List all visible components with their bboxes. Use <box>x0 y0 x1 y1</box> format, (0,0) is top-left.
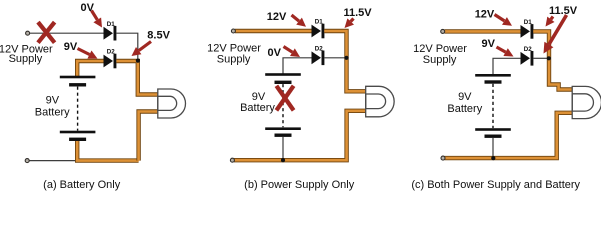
diode D2 (a) <box>104 54 117 69</box>
wire: battery + to D2 anode (active, orange) <box>77 61 103 77</box>
arrow: 11.5V probe to node after D1 (c) <box>546 17 555 27</box>
svg-text:11.5V: 11.5V <box>549 5 578 17</box>
svg-text:(a) Battery Only: (a) Battery Only <box>43 179 121 191</box>
svg-text:D2: D2 <box>107 49 115 56</box>
wire: horn - return (active, orange) <box>139 112 158 161</box>
terminal: supply + terminal (a) <box>26 31 30 35</box>
wire: bottom rail to horn - (active, orange) <box>234 111 366 160</box>
arrow: 11.5V probe to node (b) <box>345 18 355 28</box>
horn LS3 (c) <box>572 86 601 118</box>
svg-text:9V: 9V <box>64 41 78 53</box>
junction: battery-/rail node (b) <box>281 158 285 162</box>
svg-text:D1: D1 <box>107 21 115 28</box>
battery B2 9V (b) <box>265 73 301 137</box>
svg-text:(c) Both Power Supply and Batt: (c) Both Power Supply and Battery <box>411 179 580 191</box>
terminal: supply - terminal (c) <box>441 156 445 160</box>
arrow: 0V probe to D1 anode <box>92 11 103 28</box>
wire: 12V supply positive lead (inactive) <box>29 32 103 34</box>
svg-text:Supply: Supply <box>9 53 43 65</box>
svg-text:12V: 12V <box>475 9 495 21</box>
arrow: 12V probe to D1 anode (b) <box>292 15 307 27</box>
wire: D1 cathode to node (a) <box>116 33 137 58</box>
wire: battery - to bottom rail (active, orange) <box>77 141 138 161</box>
junction: D1/D2 cathodes node (a) <box>136 59 140 63</box>
svg-text:12V: 12V <box>267 11 287 23</box>
circuit (b) Power Supply Only <box>207 7 394 191</box>
arrow: 9V probe to D2 anode (c) <box>497 47 514 57</box>
junction: node at D2 cathode (b) <box>344 56 348 60</box>
wire: supply + to D1 anode (active, orange) <box>235 29 312 33</box>
arrow: 0V probe to D2 anode (b) <box>284 47 301 58</box>
horn LS1 (a) <box>158 89 186 118</box>
diode D1 (c) <box>521 24 534 39</box>
diode D2 (b) <box>312 51 325 66</box>
wire: battery - to bottom rail (inactive) <box>282 137 284 160</box>
wire: battery - to bottom rail (inactive) (c) <box>492 138 494 158</box>
battery B3 9V (c) <box>475 74 511 138</box>
svg-text:0V: 0V <box>268 47 282 59</box>
arrow: 9V probe to D2 anode <box>78 49 98 59</box>
svg-text:11.5V: 11.5V <box>344 7 373 19</box>
svg-text:Battery: Battery <box>240 102 275 114</box>
junction: battery-/rail node (c) <box>491 156 495 160</box>
wire: supply + to D1 anode (active, orange) (c) <box>445 29 521 33</box>
svg-text:9V: 9V <box>458 91 472 103</box>
diode D1 (a) <box>104 26 117 41</box>
wire: supply negative lead (inactive) <box>28 160 75 162</box>
wire: D2 cathode to horn + (active, orange) <box>116 61 157 95</box>
svg-text:(b) Power Supply Only: (b) Power Supply Only <box>244 179 355 191</box>
svg-text:9V: 9V <box>482 38 496 50</box>
terminal: supply + terminal (c) <box>441 29 445 33</box>
wire: D1 cathode to node (active, orange) <box>324 31 365 91</box>
svg-text:9V: 9V <box>46 95 60 107</box>
circuit (c) Both Power Supply and Battery <box>411 5 601 191</box>
svg-text:D1: D1 <box>524 19 532 26</box>
X mark: battery disconnected (b) <box>276 86 293 111</box>
svg-text:D1: D1 <box>315 19 323 26</box>
svg-text:Battery: Battery <box>447 103 482 115</box>
svg-text:Battery: Battery <box>35 107 70 119</box>
X mark: supply disconnected (a) <box>38 22 55 43</box>
circuit (a) Battery Only <box>0 2 186 191</box>
junction: node at D2 cathode (c) <box>547 56 551 60</box>
wire: battery + to D2 anode (inactive) <box>283 58 312 74</box>
wire: bottom rail to horn - (active, orange) (c) <box>445 113 573 158</box>
terminal: supply - terminal (a) <box>25 159 29 163</box>
diode D2 (c) <box>521 51 534 66</box>
wire: battery + to D2 anode (inactive) (c) <box>493 58 521 75</box>
svg-text:12V Power: 12V Power <box>207 42 261 54</box>
wire: D2 cathode to node (inactive) (c) <box>533 57 547 59</box>
terminal: supply + terminal (b) <box>231 29 235 33</box>
battery B1 9V (a) <box>60 76 96 141</box>
horn LS2 (b) <box>366 86 394 117</box>
arrow: 11.5V probe to D2 cathode node (c) <box>544 15 567 54</box>
svg-text:12V Power: 12V Power <box>413 43 467 55</box>
svg-text:8.5V: 8.5V <box>147 30 170 42</box>
arrow: 8.5V probe to cathode node <box>132 42 152 57</box>
terminal: supply - terminal (b) <box>230 158 234 162</box>
svg-text:Supply: Supply <box>423 54 457 66</box>
arrow: 12V probe to D1 anode (c) <box>495 15 513 26</box>
svg-text:D2: D2 <box>315 45 323 52</box>
wire: D2 cathode to node (inactive) <box>324 57 345 59</box>
svg-text:D2: D2 <box>524 46 532 53</box>
wire: D1 cathode to horn + (active, orange) (c) <box>533 31 572 89</box>
svg-text:Supply: Supply <box>217 54 251 66</box>
diode D1 (b) <box>312 24 325 39</box>
